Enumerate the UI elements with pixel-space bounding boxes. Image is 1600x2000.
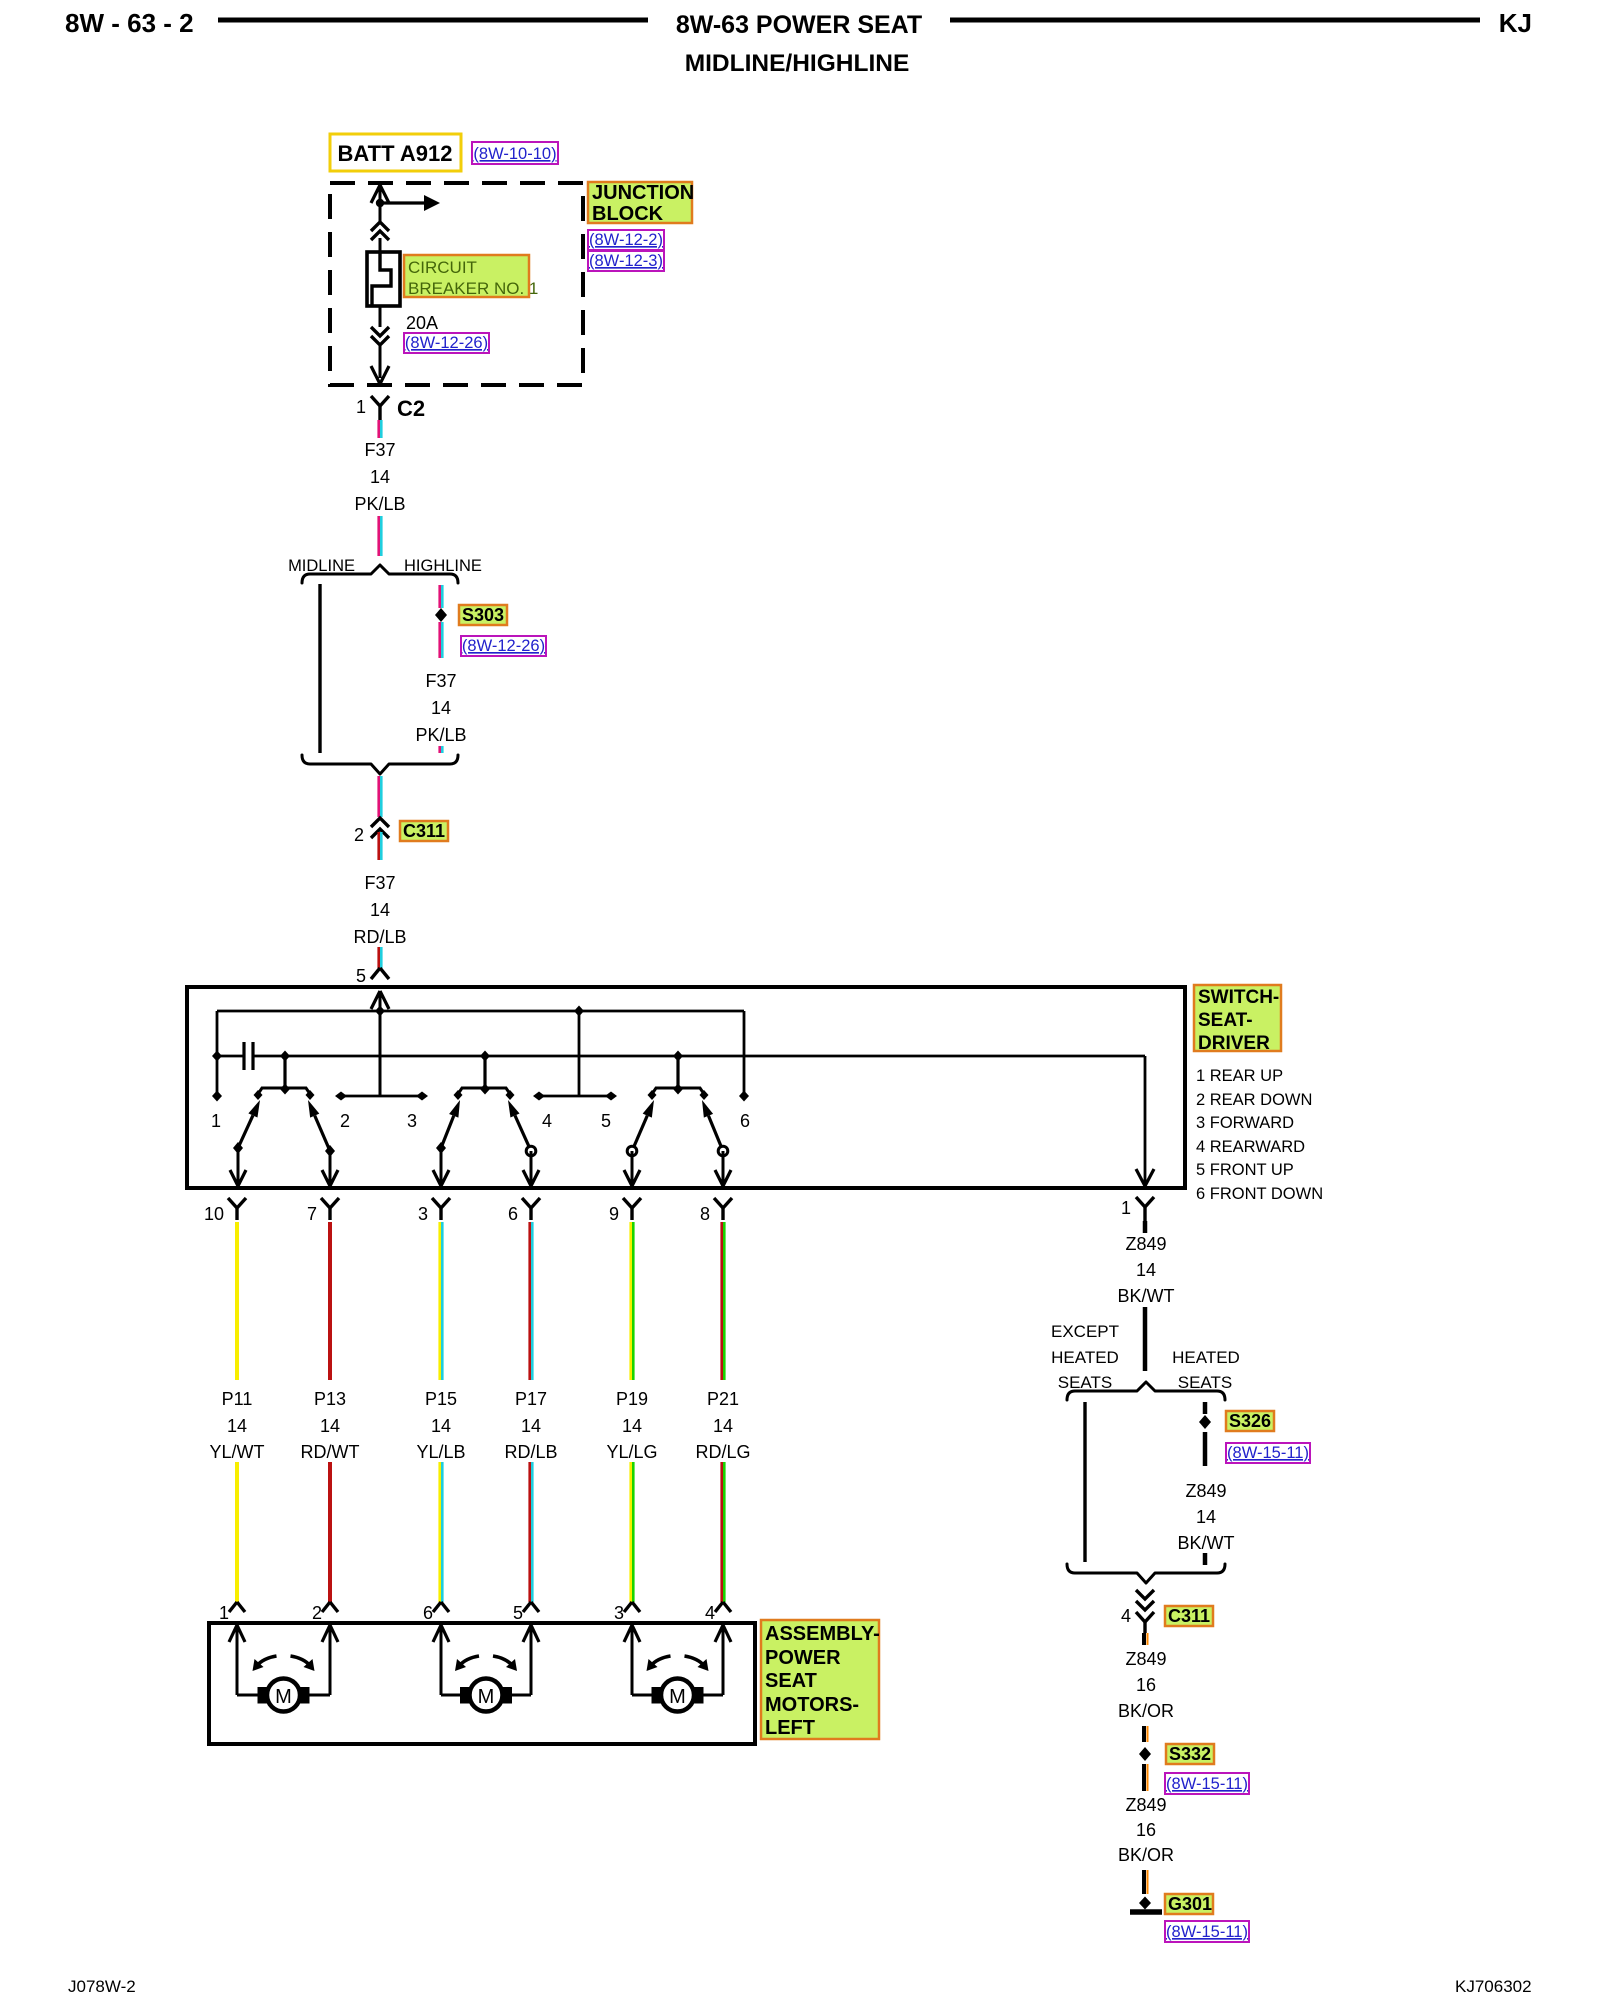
svg-text:YL/LG: YL/LG xyxy=(606,1442,657,1462)
svg-text:14: 14 xyxy=(431,1416,451,1436)
svg-text:16: 16 xyxy=(1136,1820,1156,1840)
svg-text:PK/LB: PK/LB xyxy=(354,494,405,514)
svg-text:4 REARWARD: 4 REARWARD xyxy=(1196,1138,1305,1156)
wire branch arrow to right xyxy=(380,201,426,204)
bar pins 2-3 xyxy=(338,1095,425,1098)
svg-text:(8W-15-11): (8W-15-11) xyxy=(1166,1923,1248,1941)
svg-text:SWITCH-: SWITCH- xyxy=(1198,987,1279,1008)
circuit breaker label xyxy=(404,255,529,297)
svg-text:BK/OR: BK/OR xyxy=(1118,1701,1174,1721)
svg-text:2: 2 xyxy=(354,825,364,845)
svg-text:(8W-12-26): (8W-12-26) xyxy=(462,637,545,655)
svg-text:2: 2 xyxy=(340,1111,350,1131)
svg-text:14: 14 xyxy=(370,900,390,920)
ground G301 xyxy=(1139,1897,1151,1910)
wire below S326 xyxy=(1203,1432,1208,1466)
heated branch lower wire segment xyxy=(1203,1553,1208,1565)
svg-text:3: 3 xyxy=(418,1204,428,1224)
switch connector pin 10 wire P11 14 YL/WT xyxy=(228,1198,237,1208)
svg-text:PK/LB: PK/LB xyxy=(415,725,466,745)
svg-text:SEATS: SEATS xyxy=(1058,1373,1112,1392)
svg-text:RD/LG: RD/LG xyxy=(695,1442,750,1462)
svg-text:6 FRONT DOWN: 6 FRONT DOWN xyxy=(1196,1185,1323,1203)
svg-text:2 REAR DOWN: 2 REAR DOWN xyxy=(1196,1091,1312,1109)
switch connector pin 6 wire P17 14 RD/LB xyxy=(522,1198,531,1208)
svg-text:20A: 20A xyxy=(406,313,438,333)
svg-text:(8W-12-26): (8W-12-26) xyxy=(405,334,488,352)
assembly power seat motors box xyxy=(209,1623,755,1744)
svg-text:4: 4 xyxy=(705,1603,715,1623)
junction dot bar45 on top bus xyxy=(574,1006,584,1017)
svg-text:MIDLINE: MIDLINE xyxy=(288,557,355,575)
reference 8W-10-10 xyxy=(472,142,558,164)
svg-text:LEFT: LEFT xyxy=(765,1717,815,1739)
svg-text:SEATS: SEATS xyxy=(1178,1373,1232,1392)
motor connector pin 6 xyxy=(433,1602,441,1612)
svg-text:1: 1 xyxy=(1121,1198,1131,1218)
svg-text:(8W-15-11): (8W-15-11) xyxy=(1227,1444,1309,1462)
svg-text:5: 5 xyxy=(513,1603,523,1623)
bar pins 4-5 xyxy=(536,1095,614,1098)
svg-text:1: 1 xyxy=(211,1111,221,1131)
svg-text:14: 14 xyxy=(1136,1260,1156,1280)
splice S332 xyxy=(1139,1747,1151,1761)
wire Z849 14 BK/WT xyxy=(1143,1221,1148,1233)
svg-text:Z849: Z849 xyxy=(1185,1481,1226,1501)
wire below S332 xyxy=(1142,1764,1146,1791)
svg-text:Z849: Z849 xyxy=(1125,1234,1166,1254)
svg-text:Z849: Z849 xyxy=(1125,1649,1166,1669)
highline wire lower segment xyxy=(438,746,441,753)
svg-text:P15: P15 xyxy=(425,1389,457,1409)
switch connector pin 3 wire P15 14 YL/LB xyxy=(432,1198,441,1208)
motor connector pin 3 xyxy=(624,1602,632,1612)
svg-text:SEAT-: SEAT- xyxy=(1198,1010,1253,1031)
svg-text:5: 5 xyxy=(601,1111,611,1131)
reference 8W-15-11 at S332 xyxy=(1165,1773,1249,1794)
svg-text:4: 4 xyxy=(542,1111,552,1131)
svg-text:BLOCK: BLOCK xyxy=(592,203,664,225)
svg-text:(8W-15-11): (8W-15-11) xyxy=(1166,1775,1248,1793)
connector C311 pin 2 double chevron xyxy=(371,818,389,827)
header rule left xyxy=(218,18,648,23)
switch internal top bus xyxy=(217,1010,744,1013)
reference 8W-12-2 xyxy=(588,230,664,250)
svg-text:2: 2 xyxy=(312,1603,322,1623)
switch connector pin 8 wire P21 14 RD/LG xyxy=(714,1198,723,1208)
svg-text:S332: S332 xyxy=(1169,1744,1211,1764)
reference 8W-15-11 at S326 xyxy=(1226,1443,1310,1463)
splice S303 xyxy=(435,608,447,622)
motor M at x=677.5 xyxy=(631,1626,634,1695)
motor connector pin 1 xyxy=(229,1602,237,1612)
svg-text:6: 6 xyxy=(423,1603,433,1623)
svg-text:3: 3 xyxy=(614,1603,624,1623)
motor M at x=283.5 xyxy=(236,1626,239,1695)
svg-text:14: 14 xyxy=(1196,1507,1216,1527)
merge brace heated seats xyxy=(1067,1564,1225,1583)
wire below splice S303 xyxy=(438,622,441,658)
wire RD/LB into switch xyxy=(377,947,380,968)
svg-text:14: 14 xyxy=(370,467,390,487)
svg-text:P21: P21 xyxy=(707,1389,739,1409)
wire Z849 16 BK/OR xyxy=(1142,1633,1146,1645)
bar45 stem to top bus xyxy=(578,1011,581,1096)
assembly label xyxy=(761,1620,879,1739)
circuit breaker no. 1 symbol 20A xyxy=(367,252,400,306)
svg-text:BK/WT: BK/WT xyxy=(1178,1533,1235,1553)
svg-text:KJ706302: KJ706302 xyxy=(1455,1977,1532,1996)
midline branch wire xyxy=(318,584,321,753)
svg-text:JUNCTION: JUNCTION xyxy=(592,182,694,204)
svg-text:(8W-10-10): (8W-10-10) xyxy=(473,145,556,163)
switch element at x=678 xyxy=(676,1056,679,1090)
wire F37 14 PK/LB lower segment xyxy=(377,516,380,556)
svg-text:S303: S303 xyxy=(462,605,504,625)
svg-text:9: 9 xyxy=(609,1204,619,1224)
bus exit to ground pin xyxy=(1144,1056,1147,1184)
right bus drop to pin 6 xyxy=(743,1011,746,1096)
svg-text:J078W-2: J078W-2 xyxy=(68,1977,136,1996)
svg-text:G301: G301 xyxy=(1168,1894,1212,1914)
motor connector pin 2 xyxy=(322,1602,330,1612)
switch internal second bus xyxy=(254,1055,1145,1058)
svg-text:RD/WT: RD/WT xyxy=(301,1442,360,1462)
svg-text:(8W-12-3): (8W-12-3) xyxy=(589,252,663,270)
svg-text:8: 8 xyxy=(700,1204,710,1224)
highline branch wire F37 segment xyxy=(438,585,441,608)
junction block label xyxy=(588,182,692,223)
svg-text:4: 4 xyxy=(1121,1606,1131,1626)
feed wire entering switch with up arrow xyxy=(371,991,380,1009)
split brace heated seats xyxy=(1067,1382,1225,1400)
arrow exiting junction block xyxy=(371,366,380,384)
svg-text:RD/LB: RD/LB xyxy=(353,927,406,947)
svg-text:YL/WT: YL/WT xyxy=(209,1442,264,1462)
switch-seat-driver box xyxy=(187,987,1185,1188)
reference 8W-12-26 xyxy=(404,333,489,353)
svg-text:POWER: POWER xyxy=(765,1647,841,1669)
switch connector pin 5 xyxy=(371,968,380,979)
junction dot feed on top bus xyxy=(375,1006,385,1017)
splice S326 xyxy=(1199,1415,1211,1429)
svg-text:BREAKER NO. 1: BREAKER NO. 1 xyxy=(408,279,538,298)
svg-text:S326: S326 xyxy=(1229,1411,1271,1431)
connector C2 pin 1 xyxy=(371,396,380,406)
wire into connector C311 xyxy=(377,776,380,817)
junction block dashed boundary xyxy=(330,183,583,385)
svg-text:ASSEMBLY-: ASSEMBLY- xyxy=(765,1623,880,1645)
wire F37 14 PK/LB upper segment xyxy=(377,420,380,438)
capacitor symbol in switch xyxy=(217,1055,243,1058)
switch connector pin 1 wire Z849 xyxy=(1136,1197,1145,1207)
motor M at x=486.0 xyxy=(440,1626,443,1695)
node junction dot xyxy=(376,199,384,207)
svg-text:6: 6 xyxy=(508,1204,518,1224)
merge brace xyxy=(302,755,458,774)
svg-text:BK/OR: BK/OR xyxy=(1118,1845,1174,1865)
svg-text:P17: P17 xyxy=(515,1389,547,1409)
svg-text:14: 14 xyxy=(622,1416,642,1436)
left bus drop to pin 1 xyxy=(216,1011,219,1096)
heated seats branch wire segment xyxy=(1203,1402,1208,1414)
switch element at x=285 xyxy=(283,1056,286,1090)
svg-text:3: 3 xyxy=(407,1111,417,1131)
svg-text:C2: C2 xyxy=(397,396,425,421)
svg-text:M: M xyxy=(669,1686,686,1708)
connector double chevron above circuit breaker xyxy=(371,222,389,231)
svg-text:CIRCUIT: CIRCUIT xyxy=(408,258,477,277)
svg-text:DRIVER: DRIVER xyxy=(1198,1033,1270,1054)
svg-text:Z849: Z849 xyxy=(1125,1795,1166,1815)
svg-text:YL/LB: YL/LB xyxy=(416,1442,465,1462)
svg-text:5: 5 xyxy=(356,966,366,986)
svg-text:16: 16 xyxy=(1136,1675,1156,1695)
svg-text:14: 14 xyxy=(320,1416,340,1436)
svg-text:10: 10 xyxy=(204,1204,224,1224)
svg-text:3 FORWARD: 3 FORWARD xyxy=(1196,1114,1294,1132)
svg-text:M: M xyxy=(275,1686,292,1708)
junction dot left bus at second bus xyxy=(212,1051,222,1062)
svg-text:MIDLINE/HIGHLINE: MIDLINE/HIGHLINE xyxy=(685,50,910,77)
svg-text:14: 14 xyxy=(521,1416,541,1436)
svg-text:P13: P13 xyxy=(314,1389,346,1409)
svg-text:1: 1 xyxy=(219,1603,229,1623)
svg-text:RD/LB: RD/LB xyxy=(504,1442,557,1462)
switch element at x=485 xyxy=(483,1056,486,1090)
svg-text:14: 14 xyxy=(713,1416,733,1436)
svg-text:1 REAR UP: 1 REAR UP xyxy=(1196,1067,1283,1085)
battery feed BATT A912 box xyxy=(330,134,461,171)
svg-text:14: 14 xyxy=(431,698,451,718)
svg-text:F37: F37 xyxy=(425,671,456,691)
svg-text:HEATED: HEATED xyxy=(1172,1348,1240,1367)
svg-text:M: M xyxy=(478,1686,495,1708)
svg-text:HIGHLINE: HIGHLINE xyxy=(404,557,482,575)
svg-text:MOTORS-: MOTORS- xyxy=(765,1694,859,1716)
connector C311 pin 4 xyxy=(1136,1590,1154,1599)
wire F37 14 RD/LB below C311 xyxy=(377,832,380,860)
svg-text:1: 1 xyxy=(356,397,366,417)
svg-text:F37: F37 xyxy=(364,440,395,460)
switch connector pin 7 wire P13 14 RD/WT xyxy=(321,1198,330,1208)
switch seat driver label xyxy=(1194,985,1281,1051)
svg-text:SEAT: SEAT xyxy=(765,1670,817,1692)
wire from battery into junction block with up arrow xyxy=(371,185,380,203)
svg-text:BK/WT: BK/WT xyxy=(1118,1286,1175,1306)
except heated seats branch wire xyxy=(1083,1402,1086,1562)
svg-text:8W - 63 - 2: 8W - 63 - 2 xyxy=(65,8,194,38)
svg-text:5 FRONT UP: 5 FRONT UP xyxy=(1196,1161,1294,1179)
motor connector pin 4 xyxy=(715,1602,723,1612)
svg-text:EXCEPT: EXCEPT xyxy=(1051,1322,1119,1341)
svg-text:6: 6 xyxy=(740,1111,750,1131)
svg-text:KJ: KJ xyxy=(1499,8,1532,38)
svg-text:14: 14 xyxy=(227,1416,247,1436)
svg-text:P19: P19 xyxy=(616,1389,648,1409)
svg-text:C311: C311 xyxy=(1168,1606,1210,1626)
reference 8W-12-26 at S303 xyxy=(461,636,546,656)
reference 8W-12-3 xyxy=(588,251,664,271)
svg-text:7: 7 xyxy=(307,1204,317,1224)
motor connector pin 5 xyxy=(523,1602,531,1612)
reference 8W-15-11 at G301 xyxy=(1165,1921,1249,1942)
wire below breaker with double chevron xyxy=(379,306,382,327)
switch connector pin 9 wire P19 14 YL/LG xyxy=(623,1198,632,1208)
svg-text:P11: P11 xyxy=(222,1389,253,1409)
svg-text:HEATED: HEATED xyxy=(1051,1348,1119,1367)
svg-text:C311: C311 xyxy=(403,821,445,841)
split brace midline/highline xyxy=(302,565,458,583)
svg-text:(8W-12-2): (8W-12-2) xyxy=(589,231,663,249)
svg-text:8W-63 POWER SEAT: 8W-63 POWER SEAT xyxy=(676,11,922,39)
svg-text:F37: F37 xyxy=(364,873,395,893)
svg-text:BATT A912: BATT A912 xyxy=(338,141,453,166)
header rule right xyxy=(950,18,1480,23)
